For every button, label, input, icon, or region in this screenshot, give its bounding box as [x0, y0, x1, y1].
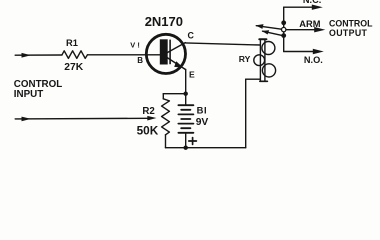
svg-text:RY: RY [239, 54, 251, 64]
svg-text:E: E [189, 70, 195, 80]
svg-text:9V: 9V [196, 117, 209, 128]
svg-text:2N170: 2N170 [145, 14, 183, 29]
svg-text:OUTPUT: OUTPUT [329, 28, 368, 38]
svg-text:R2: R2 [142, 106, 154, 117]
svg-text:BI: BI [197, 105, 208, 116]
svg-text:ARM: ARM [299, 19, 320, 29]
svg-text:N.C.: N.C. [303, 0, 321, 5]
svg-text:N.O.: N.O. [304, 55, 323, 65]
svg-text:R1: R1 [66, 38, 78, 48]
svg-text:!: ! [137, 41, 139, 50]
svg-text:50K: 50K [137, 123, 159, 137]
svg-text:C: C [188, 30, 195, 40]
svg-text:V: V [130, 41, 135, 50]
svg-text:INPUT: INPUT [14, 89, 43, 100]
svg-text:B: B [137, 56, 143, 65]
svg-text:27K: 27K [64, 62, 83, 73]
